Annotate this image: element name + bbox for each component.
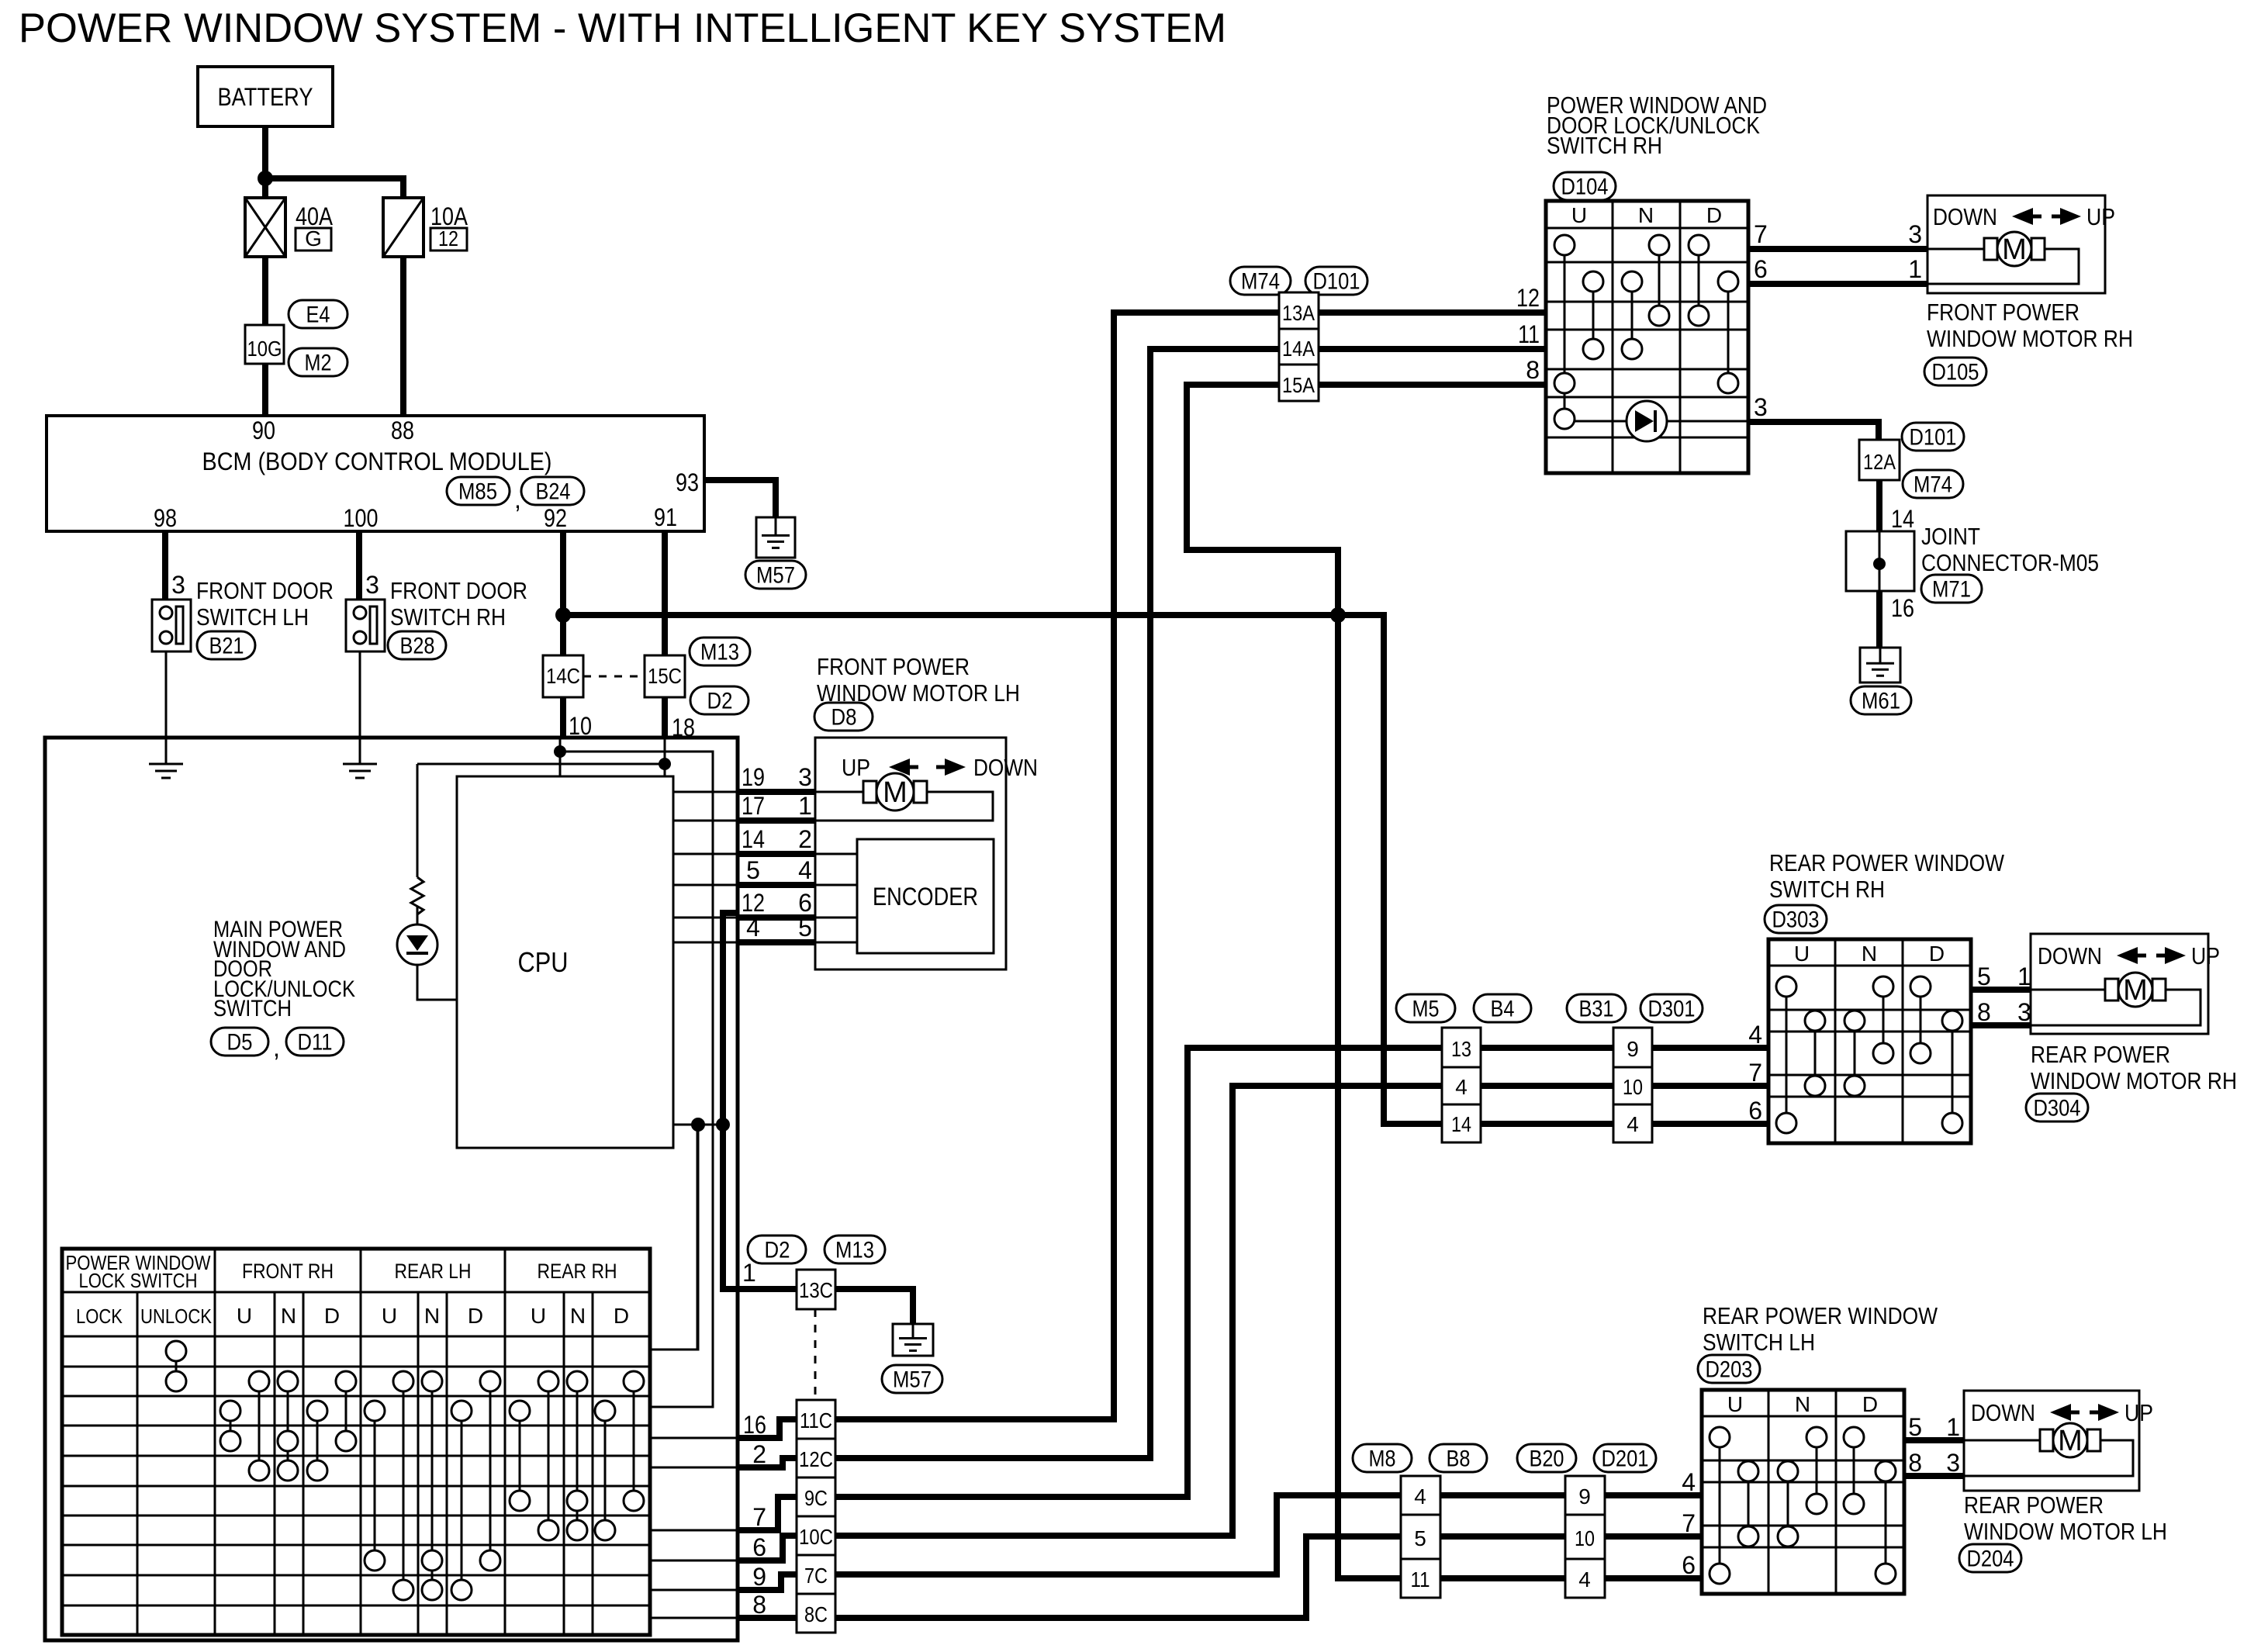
svg-text:D: D bbox=[1862, 1392, 1878, 1416]
connector D105 bbox=[1924, 358, 1986, 385]
wire CPU row 14 bbox=[673, 853, 738, 855]
D104 diode bbox=[1575, 420, 1627, 423]
svg-text:M71: M71 bbox=[1932, 577, 1971, 603]
switch D104 grid bbox=[1546, 201, 1748, 473]
connector M5 bbox=[1396, 994, 1455, 1022]
connector D304 bbox=[2026, 1094, 2088, 1121]
svg-text:FRONT RH: FRONT RH bbox=[242, 1260, 334, 1283]
svg-text:U: U bbox=[1727, 1392, 1743, 1416]
wire to encoder 5 bbox=[815, 942, 857, 944]
node bus left junction bbox=[555, 607, 571, 623]
connector B31 bbox=[1567, 994, 1626, 1022]
svg-text:U: U bbox=[237, 1304, 252, 1328]
svg-text:12C: 12C bbox=[799, 1447, 833, 1471]
wire LED bottom bbox=[417, 965, 457, 1000]
D203 contact N-right bbox=[1816, 1437, 1818, 1504]
svg-text:CPU: CPU bbox=[518, 946, 569, 978]
D203 contact U-right bbox=[1748, 1471, 1750, 1536]
connector D104 bbox=[1554, 172, 1616, 200]
svg-text:REAR POWER WINDOW: REAR POWER WINDOW bbox=[1769, 849, 2005, 876]
wire 10C riser bbox=[835, 1086, 1442, 1536]
svg-text:12: 12 bbox=[742, 889, 765, 917]
wire M5 to B31 row3 bbox=[1481, 1121, 1613, 1127]
connector 14C bbox=[543, 655, 583, 697]
motor box D304 bbox=[2031, 934, 2208, 1034]
svg-text:5: 5 bbox=[1908, 1413, 1922, 1441]
svg-text:4: 4 bbox=[1682, 1468, 1696, 1496]
svg-text:D303: D303 bbox=[1772, 907, 1820, 933]
ground M57 boxed bbox=[756, 517, 795, 558]
svg-text:9C: 9C bbox=[804, 1486, 828, 1510]
front door switch LH bbox=[152, 600, 191, 651]
svg-text:3: 3 bbox=[2017, 998, 2031, 1026]
svg-text:N: N bbox=[1862, 942, 1877, 966]
ground M61 boxed bbox=[1860, 648, 1900, 683]
D104 contact U-right bbox=[1592, 282, 1595, 349]
svg-text:D2: D2 bbox=[765, 1238, 790, 1263]
wire 11C to 13A riser bbox=[835, 313, 1279, 1419]
svg-text:11: 11 bbox=[1411, 1567, 1430, 1592]
connector D201 bbox=[1594, 1444, 1656, 1472]
connector 12A bbox=[1859, 440, 1900, 480]
svg-text:M8: M8 bbox=[1369, 1446, 1396, 1472]
contact RLH U-left bbox=[374, 1411, 376, 1560]
connector D2 lower bbox=[748, 1236, 806, 1263]
wire D104 pin7 to motor bbox=[1748, 246, 1927, 252]
svg-text:10C: 10C bbox=[799, 1525, 833, 1549]
wire 15A to D104 pin8 bbox=[1319, 382, 1546, 388]
svg-text:SWITCH RH: SWITCH RH bbox=[390, 603, 506, 631]
svg-text:D203: D203 bbox=[1706, 1357, 1753, 1383]
connector 8C bbox=[797, 1594, 835, 1633]
svg-text:JOINT: JOINT bbox=[1921, 523, 1980, 550]
svg-text:9: 9 bbox=[752, 1563, 766, 1591]
svg-text:B31: B31 bbox=[1579, 997, 1614, 1022]
svg-text:N: N bbox=[1795, 1392, 1810, 1416]
svg-text:DOWN: DOWN bbox=[1971, 1399, 2035, 1426]
connector D101 lower bbox=[1902, 423, 1964, 451]
wire pin 14-2 bbox=[738, 851, 815, 857]
svg-text:100: 100 bbox=[344, 504, 379, 532]
wire junction to fuse2 bbox=[265, 178, 403, 198]
svg-text:REAR POWER WINDOW: REAR POWER WINDOW bbox=[1703, 1302, 1938, 1329]
wire pin 2 table bbox=[650, 1467, 738, 1469]
wire fuse1 to BCM pin90 bbox=[262, 257, 268, 416]
svg-text:D2: D2 bbox=[707, 689, 733, 714]
svg-text:B4: B4 bbox=[1491, 997, 1515, 1022]
connector M13 lower bbox=[825, 1236, 885, 1263]
svg-text:4: 4 bbox=[798, 856, 812, 884]
motor M rearLH bbox=[2040, 1429, 2053, 1451]
D303 contact N-right bbox=[1882, 987, 1885, 1053]
wire BCM pin91 down bbox=[662, 531, 668, 655]
svg-text:CONNECTOR-M05: CONNECTOR-M05 bbox=[1921, 549, 2099, 576]
svg-text:UP: UP bbox=[842, 754, 870, 781]
wire D104 pin3 down bbox=[1748, 422, 1879, 440]
svg-text:N: N bbox=[1638, 203, 1654, 227]
svg-text:14A: 14A bbox=[1282, 337, 1315, 361]
svg-text:DOWN: DOWN bbox=[1933, 203, 1997, 230]
wire 13C to ground bbox=[835, 1289, 913, 1324]
connector M2 bbox=[289, 348, 347, 376]
connector D203 bbox=[1698, 1355, 1760, 1383]
svg-text:6: 6 bbox=[1748, 1097, 1762, 1125]
svg-text:14: 14 bbox=[742, 825, 765, 853]
svg-text:98: 98 bbox=[154, 504, 177, 532]
svg-text:SWITCH LH: SWITCH LH bbox=[1703, 1329, 1815, 1356]
wire 14C to box pin10 bbox=[560, 697, 566, 738]
connector B24 bbox=[521, 477, 584, 505]
connector M74 upper bbox=[1230, 267, 1291, 295]
svg-text:E4: E4 bbox=[306, 302, 330, 328]
wire junction to fuse1 bbox=[262, 178, 268, 198]
svg-text:SWITCH: SWITCH bbox=[213, 996, 292, 1021]
svg-text:B28: B28 bbox=[400, 634, 435, 659]
svg-text:19: 19 bbox=[742, 763, 765, 791]
svg-text:D: D bbox=[1706, 203, 1722, 227]
front door switch RH bbox=[346, 600, 385, 651]
wire 13A to D104 pin12 bbox=[1319, 309, 1546, 316]
BCM body control module bbox=[47, 416, 704, 531]
svg-text:6: 6 bbox=[1682, 1551, 1696, 1579]
svg-text:M61: M61 bbox=[1862, 689, 1900, 714]
svg-text:POWER WINDOW SYSTEM - WITH INT: POWER WINDOW SYSTEM - WITH INTELLIGENT K… bbox=[19, 5, 1226, 51]
svg-text:13: 13 bbox=[1451, 1037, 1471, 1061]
svg-text:10: 10 bbox=[1623, 1075, 1643, 1099]
wire pin 16 jog bbox=[738, 1419, 797, 1438]
wire B20 to D203 pin4 bbox=[1605, 1492, 1702, 1498]
node bus 15A junction bbox=[1330, 607, 1346, 623]
svg-text:11C: 11C bbox=[800, 1408, 832, 1433]
wire switchLH to ground bbox=[165, 651, 168, 764]
wire pin10 to CPU bbox=[559, 738, 562, 776]
svg-text:9: 9 bbox=[1578, 1484, 1591, 1509]
svg-text:M57: M57 bbox=[756, 563, 795, 589]
connector 12C bbox=[797, 1439, 835, 1477]
svg-text:92: 92 bbox=[544, 504, 567, 532]
svg-text:D101: D101 bbox=[1313, 269, 1360, 295]
svg-text:M74: M74 bbox=[1241, 269, 1280, 295]
svg-text:B8: B8 bbox=[1447, 1446, 1471, 1472]
connector D303 bbox=[1765, 905, 1827, 933]
wire switchRH to ground bbox=[359, 651, 361, 764]
svg-text:88: 88 bbox=[391, 416, 414, 444]
switch D303 grid bbox=[1768, 939, 1971, 1143]
svg-text:8: 8 bbox=[1908, 1449, 1922, 1477]
svg-text:LOCK SWITCH: LOCK SWITCH bbox=[79, 1269, 198, 1292]
wire to encoder 2 bbox=[815, 853, 857, 855]
svg-text:10G: 10G bbox=[247, 337, 282, 361]
wire pin18 to CPU bbox=[664, 738, 666, 776]
wire lineB to LED bbox=[417, 763, 665, 766]
svg-text:N: N bbox=[424, 1304, 440, 1328]
wire B20 to D203 pin7 bbox=[1605, 1533, 1702, 1540]
contact RRH D-right bbox=[633, 1381, 635, 1501]
svg-text:D8: D8 bbox=[831, 705, 857, 731]
connector 9C bbox=[797, 1477, 835, 1516]
svg-text:1: 1 bbox=[2017, 963, 2031, 990]
svg-text:7C: 7C bbox=[804, 1564, 828, 1588]
wire D303 pin5 bbox=[1971, 987, 2031, 993]
svg-text:12A: 12A bbox=[1863, 450, 1896, 474]
wire CPU row 5 bbox=[673, 884, 738, 886]
svg-text:7: 7 bbox=[1682, 1509, 1696, 1537]
contact RLH N bbox=[431, 1381, 434, 1590]
connector B20 bbox=[1517, 1444, 1576, 1472]
connector D8 bbox=[814, 703, 873, 731]
connector 15C bbox=[645, 655, 685, 697]
wire pin 4-5 bbox=[738, 939, 815, 945]
svg-text:90: 90 bbox=[252, 416, 275, 444]
connector M71 bbox=[1921, 575, 1982, 603]
svg-text:8: 8 bbox=[752, 1591, 766, 1619]
wire battery to junction bbox=[262, 126, 268, 178]
svg-text:M74: M74 bbox=[1914, 472, 1952, 498]
svg-text:N: N bbox=[570, 1304, 586, 1328]
connector B21 bbox=[197, 631, 255, 659]
svg-text:UP: UP bbox=[2124, 1399, 2153, 1426]
wire 8C riser bbox=[835, 1536, 1401, 1618]
D303 contact D-left bbox=[1920, 987, 1922, 1053]
wire motor lead LH bbox=[815, 791, 864, 793]
svg-text:D11: D11 bbox=[298, 1030, 333, 1056]
fuse F1 40A bbox=[245, 198, 285, 257]
D203 contact D-right bbox=[1885, 1471, 1887, 1574]
D203 contact N-left bbox=[1787, 1471, 1789, 1536]
connector D204 bbox=[1959, 1544, 2021, 1572]
wire D203 pin8 bbox=[1904, 1473, 1964, 1479]
D303 contact N-left bbox=[1854, 1021, 1856, 1086]
wire M5 to B31 row2 bbox=[1481, 1083, 1613, 1089]
motor box D8 bbox=[815, 738, 1006, 969]
connector M5-B4 boxes bbox=[1442, 1028, 1481, 1142]
resistor R1 bbox=[411, 877, 424, 914]
wire CPU row 12 bbox=[673, 917, 738, 919]
ground M57-2 boxed bbox=[893, 1324, 933, 1356]
svg-text:D101: D101 bbox=[1910, 425, 1957, 451]
connector M57 bbox=[745, 561, 806, 589]
wire motor lead rearLH bbox=[1964, 1439, 2039, 1442]
svg-text:4: 4 bbox=[1578, 1567, 1591, 1592]
svg-text:14: 14 bbox=[1451, 1112, 1471, 1136]
svg-text:4: 4 bbox=[1455, 1075, 1468, 1099]
svg-text:REAR POWER: REAR POWER bbox=[1964, 1491, 2104, 1519]
wire 15A to bus bbox=[1187, 385, 1338, 615]
svg-text:6: 6 bbox=[798, 889, 812, 917]
svg-text:SWITCH RH: SWITCH RH bbox=[1769, 876, 1885, 903]
wire fuse2 to BCM pin88 bbox=[400, 257, 406, 416]
svg-text:12: 12 bbox=[438, 226, 458, 251]
wire D303 pin8 bbox=[1971, 1022, 2031, 1028]
wire 12C to 14A riser bbox=[835, 349, 1279, 1458]
node pin10 branch bbox=[554, 745, 566, 758]
contact RRH N bbox=[576, 1381, 579, 1530]
wire pin 12-6 bbox=[738, 914, 815, 921]
svg-text:D201: D201 bbox=[1602, 1446, 1649, 1472]
wire 12A to joint bbox=[1876, 480, 1882, 531]
svg-text:M13: M13 bbox=[835, 1238, 874, 1263]
wire motor loop rearLH bbox=[1964, 1440, 2133, 1476]
svg-text:6: 6 bbox=[1754, 255, 1768, 283]
wire pin 17-1 bbox=[738, 817, 815, 824]
svg-text:D204: D204 bbox=[1967, 1547, 2014, 1572]
wire BCM pin98 bbox=[162, 531, 168, 600]
contact RRH U-left bbox=[519, 1411, 521, 1501]
svg-text:4: 4 bbox=[1414, 1484, 1426, 1509]
contact FRH U-right bbox=[258, 1381, 261, 1471]
ground doorswitch RH bbox=[343, 763, 377, 766]
svg-text:10: 10 bbox=[1575, 1526, 1595, 1550]
connector M8-B8 boxes bbox=[1401, 1476, 1440, 1598]
connector B31-D301 boxes bbox=[1613, 1028, 1652, 1142]
switch table grid bbox=[62, 1249, 650, 1635]
D104 contact D-right bbox=[1727, 282, 1730, 383]
connector E4 bbox=[289, 300, 347, 328]
svg-text:M: M bbox=[2058, 1425, 2083, 1457]
connector M61 bbox=[1851, 686, 1911, 714]
svg-text:REAR LH: REAR LH bbox=[395, 1260, 472, 1283]
svg-text:2: 2 bbox=[798, 825, 812, 853]
main power window switch box bbox=[45, 738, 738, 1640]
svg-text:M: M bbox=[2002, 233, 2027, 266]
contact RLH U-right bbox=[403, 1381, 405, 1590]
svg-text:D104: D104 bbox=[1561, 175, 1609, 200]
svg-text:12: 12 bbox=[1516, 284, 1540, 312]
node joint dot bbox=[1873, 558, 1886, 570]
svg-text:4: 4 bbox=[1748, 1021, 1762, 1049]
contact RRH D-left bbox=[604, 1411, 607, 1530]
wire pin 16 table bbox=[650, 1437, 738, 1439]
svg-text:8: 8 bbox=[1526, 356, 1540, 384]
svg-text:3: 3 bbox=[171, 571, 185, 599]
wire stubA to table bbox=[650, 1125, 698, 1350]
node battery junction bbox=[258, 171, 273, 186]
svg-text:7: 7 bbox=[1748, 1059, 1762, 1087]
svg-text:FRONT DOOR: FRONT DOOR bbox=[390, 577, 527, 604]
svg-text:91: 91 bbox=[654, 503, 677, 531]
wire motor loop LH bbox=[815, 792, 993, 821]
svg-text:D304: D304 bbox=[2034, 1096, 2081, 1121]
wire power bus bbox=[563, 615, 1442, 1124]
D104 contact D-left bbox=[1698, 245, 1700, 316]
svg-text:15A: 15A bbox=[1282, 373, 1315, 397]
svg-text:B20: B20 bbox=[1530, 1446, 1564, 1472]
wire pin 6 table bbox=[650, 1560, 738, 1562]
contact RLH D-left bbox=[461, 1411, 463, 1590]
D203 contact D-left bbox=[1853, 1437, 1855, 1504]
wire M8 to B20 row3 bbox=[1440, 1575, 1565, 1581]
svg-text:M: M bbox=[2123, 974, 2148, 1007]
connector M13 upper bbox=[690, 638, 750, 665]
wire motor loop rearRH bbox=[2031, 990, 2200, 1025]
D104 contact U-left bbox=[1564, 245, 1566, 419]
wire pin 2 jog bbox=[738, 1458, 797, 1467]
wire motor lead rearRH bbox=[2031, 989, 2104, 991]
wire B20 to D203 pin6 bbox=[1605, 1575, 1702, 1581]
svg-text:14C: 14C bbox=[546, 664, 580, 688]
svg-text:,: , bbox=[273, 1034, 280, 1062]
connector D101 upper bbox=[1305, 267, 1367, 295]
connector 11C bbox=[797, 1400, 835, 1439]
connector M85 bbox=[447, 477, 510, 505]
wire CPU row 17 bbox=[673, 820, 738, 822]
svg-text:WINDOW MOTOR LH: WINDOW MOTOR LH bbox=[1964, 1518, 2167, 1545]
svg-text:7: 7 bbox=[752, 1503, 766, 1531]
connector D11 bbox=[286, 1028, 344, 1056]
svg-text:B24: B24 bbox=[536, 479, 571, 505]
D303 contact D-right bbox=[1952, 1021, 1954, 1123]
wire dashed 14C-15C bbox=[583, 676, 645, 678]
wire CPU row 4 bbox=[673, 942, 738, 944]
svg-text:3: 3 bbox=[798, 763, 812, 791]
connector 13A 14A 15A bbox=[1279, 292, 1319, 401]
motor box D204 bbox=[1964, 1391, 2139, 1491]
wire pin 19-3 bbox=[738, 789, 815, 795]
svg-text:15C: 15C bbox=[648, 664, 682, 688]
svg-text:U: U bbox=[1794, 942, 1810, 966]
svg-text:REAR RH: REAR RH bbox=[538, 1260, 617, 1283]
svg-text:11: 11 bbox=[1518, 320, 1540, 348]
D104 contact N-left bbox=[1631, 282, 1634, 349]
wire CPU row 19 bbox=[673, 791, 738, 793]
svg-text:D: D bbox=[468, 1304, 483, 1328]
svg-text:ENCODER: ENCODER bbox=[873, 883, 978, 911]
svg-text:FRONT POWER: FRONT POWER bbox=[817, 653, 970, 680]
svg-text:13A: 13A bbox=[1282, 301, 1315, 325]
wire table row1 link bbox=[650, 1125, 697, 1350]
connector M8 bbox=[1353, 1444, 1412, 1472]
connector D2 upper bbox=[690, 686, 748, 714]
wire motor lead RH bbox=[1927, 248, 1983, 251]
svg-text:WINDOW MOTOR RH: WINDOW MOTOR RH bbox=[1927, 325, 2133, 352]
wire D104 pin6 to motor bbox=[1748, 281, 1927, 287]
connector B28 bbox=[388, 631, 446, 659]
connector D5 bbox=[211, 1028, 268, 1056]
battery BAT bbox=[198, 67, 333, 126]
svg-text:G: G bbox=[305, 226, 322, 251]
contact FRH U-left bbox=[230, 1411, 232, 1441]
svg-text:1: 1 bbox=[1908, 255, 1922, 283]
wire B31 to D303 pin6 bbox=[1652, 1121, 1768, 1127]
svg-text:N: N bbox=[281, 1304, 296, 1328]
connector M74 lower bbox=[1903, 470, 1963, 498]
wire pin 9 jog bbox=[738, 1574, 797, 1590]
wire M8 to B20 row1 bbox=[1440, 1492, 1565, 1498]
wire pin 5-4 bbox=[738, 882, 815, 888]
wire bus15A to M8-11 bbox=[1338, 615, 1401, 1578]
wire 7C riser bbox=[835, 1495, 1401, 1574]
svg-text:M57: M57 bbox=[893, 1367, 932, 1393]
motor M LH bbox=[863, 781, 876, 803]
svg-text:5: 5 bbox=[798, 914, 812, 942]
connector B20-D201 boxes bbox=[1565, 1476, 1605, 1598]
wire to encoder 6 bbox=[815, 917, 857, 919]
svg-text:17: 17 bbox=[742, 792, 765, 820]
D203 contact U-left bbox=[1719, 1437, 1721, 1574]
svg-text:LOCK: LOCK bbox=[76, 1305, 123, 1328]
wire B31 to D303 pin7 bbox=[1652, 1083, 1768, 1089]
wire pin 7 table bbox=[650, 1529, 738, 1532]
contact RLH D-right bbox=[489, 1381, 492, 1560]
svg-text:3: 3 bbox=[1754, 393, 1768, 421]
svg-text:M5: M5 bbox=[1412, 997, 1440, 1022]
svg-text:M13: M13 bbox=[700, 640, 739, 665]
wire M5 to B31 row1 bbox=[1481, 1045, 1613, 1051]
svg-text:WINDOW MOTOR RH: WINDOW MOTOR RH bbox=[2031, 1067, 2237, 1094]
wire BCM pin92 down bbox=[560, 531, 566, 655]
svg-text:SWITCH LH: SWITCH LH bbox=[196, 603, 309, 631]
wire BCM pin100 bbox=[356, 531, 362, 600]
